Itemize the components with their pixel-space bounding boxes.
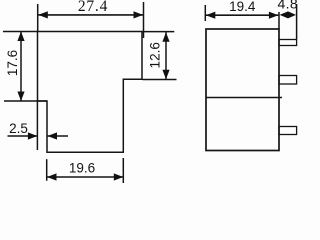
svg-text:4.8: 4.8 bbox=[277, 0, 298, 12]
svg-text:17.6: 17.6 bbox=[5, 50, 20, 76]
svg-text:12.6: 12.6 bbox=[147, 42, 162, 68]
svg-text:2.5: 2.5 bbox=[9, 121, 28, 136]
svg-text:19.4: 19.4 bbox=[229, 0, 256, 14]
svg-text:27.4: 27.4 bbox=[78, 0, 108, 15]
svg-text:19.6: 19.6 bbox=[69, 161, 95, 176]
